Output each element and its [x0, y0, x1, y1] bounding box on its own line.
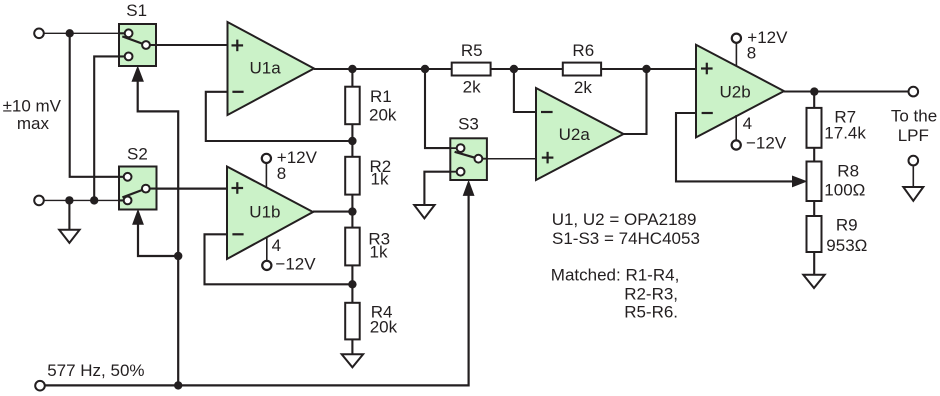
junction dot U1b out [348, 207, 356, 215]
wire S1 control [138, 80, 179, 385]
svg-text:1k: 1k [371, 170, 389, 189]
svg-text:U1a: U1a [250, 59, 282, 78]
resistor R2 [345, 157, 360, 195]
svg-text:20k: 20k [370, 317, 398, 336]
junction dot U2a minus branch [510, 65, 518, 73]
svg-text:max: max [17, 114, 50, 133]
wire S1 b branch [94, 56, 119, 200]
junction dot S1 b branch [90, 196, 98, 204]
resistor R4 [345, 303, 360, 340]
wire S3 common to U2a plus [487, 158, 536, 160]
wire U2b feedback [676, 113, 793, 181]
svg-text:R5-R6.: R5-R6. [624, 303, 678, 322]
svg-text:2k: 2k [574, 78, 592, 97]
svg-text:R9: R9 [836, 216, 858, 235]
svg-text:S1-S3 = 74HC4053: S1-S3 = 74HC4053 [552, 229, 700, 248]
terminal input2 [34, 196, 44, 206]
junction dot U1a feedback [348, 137, 356, 145]
wire U2a minus branch [514, 69, 536, 112]
op-amp U2a [536, 88, 624, 180]
wire S1 common to U1a plus [146, 44, 228, 46]
svg-text:100Ω: 100Ω [824, 180, 865, 199]
arrowhead S2 control [133, 210, 143, 224]
wire U1a output main bus [314, 68, 696, 70]
wire S2 control [138, 223, 178, 256]
arrowhead S1 control [132, 67, 143, 81]
resistor R8 [807, 162, 822, 202]
junction dot U2a out [642, 65, 650, 73]
svg-text:8: 8 [277, 164, 286, 183]
svg-text:U1, U2 = OPA2189: U1, U2 = OPA2189 [552, 210, 697, 229]
op-amp U1a [228, 22, 315, 115]
svg-text:4: 4 [272, 236, 281, 255]
resistor R7 [807, 108, 822, 148]
ground under S3 [414, 205, 434, 218]
wire input1 vertical bus to S2 a [70, 33, 119, 177]
wire S3 a branch from main bus [425, 69, 450, 148]
resistor R1 [345, 87, 360, 125]
ground under R4 [342, 354, 363, 367]
ground under input2 [59, 230, 79, 243]
svg-text:S1: S1 [126, 1, 147, 20]
U1b -12V pin 4 [262, 236, 316, 273]
arrowhead feedback into R8 [793, 176, 807, 186]
svg-text:R2-R3,: R2-R3, [624, 284, 678, 303]
svg-text:953Ω: 953Ω [826, 236, 867, 255]
switch S2 [119, 167, 157, 210]
wire input1 stub [44, 32, 119, 34]
resistor R9 [807, 216, 822, 252]
junction dot S3 branch [421, 65, 429, 73]
switch S1 [119, 24, 156, 66]
resistor R6 [563, 63, 601, 76]
resistor R5 [452, 63, 491, 76]
wire U1a feedback [206, 92, 353, 141]
wire S2 common to U1b plus [146, 188, 227, 190]
wire clock bottom bus [44, 195, 469, 386]
junction dot input1 [66, 29, 74, 37]
wire LPF ground stem [912, 166, 914, 187]
switch S3 [450, 138, 487, 180]
junction dot U2b out [810, 87, 818, 95]
op-amp U2b [696, 45, 784, 138]
svg-text:577 Hz, 50%: 577 Hz, 50% [47, 361, 144, 380]
terminal input1 [34, 29, 44, 39]
svg-text:U2b: U2b [720, 82, 751, 101]
U1b +12V pin 8 [262, 148, 318, 187]
svg-text:2k: 2k [463, 78, 481, 97]
svg-text:To the: To the [891, 107, 937, 126]
junction dot clock bus [174, 381, 182, 389]
svg-text:R6: R6 [572, 41, 594, 60]
ground under R9 [803, 275, 824, 288]
junction dot input2 ground [65, 196, 73, 204]
U2b +12V pin 8 [732, 28, 788, 67]
wire U2b output [784, 90, 908, 92]
svg-text:Matched: R1-R4,: Matched: R1-R4, [551, 265, 680, 284]
svg-text:8: 8 [747, 44, 756, 63]
svg-text:−12V: −12V [275, 254, 316, 273]
svg-text:U2a: U2a [559, 125, 591, 144]
svg-text:17.4k: 17.4k [824, 123, 866, 142]
svg-text:R8: R8 [837, 162, 859, 181]
svg-text:S3: S3 [458, 114, 479, 133]
ground under LPF terminal [903, 187, 923, 201]
arrowhead S3 control [463, 181, 473, 195]
svg-text:R1: R1 [370, 87, 392, 106]
wire ground under input2 stem [68, 200, 70, 229]
svg-text:LPF: LPF [898, 126, 929, 145]
junction dot R1 top [348, 65, 356, 73]
terminal output [909, 87, 919, 97]
svg-text:R5: R5 [461, 41, 483, 60]
junction dot S2 control [174, 252, 182, 260]
svg-text:U1b: U1b [249, 203, 280, 222]
U2b -12V pin 4 [732, 114, 787, 153]
wire R7-R9 chain vertical [813, 92, 815, 275]
svg-text:±10 mV: ±10 mV [3, 97, 62, 116]
svg-text:S2: S2 [127, 144, 148, 163]
svg-text:20k: 20k [369, 105, 397, 124]
wire input2 stub to S2 b [44, 199, 119, 201]
terminal LPF ground [909, 156, 919, 166]
svg-text:1k: 1k [370, 242, 388, 261]
svg-text:4: 4 [743, 114, 752, 133]
terminal clock [35, 381, 45, 391]
wire U2a output riser [624, 69, 647, 134]
svg-text:−12V: −12V [746, 134, 787, 153]
wire S3 b to ground [424, 172, 450, 205]
wire R1-R4 chain vertical [351, 69, 353, 354]
resistor R3 [345, 228, 360, 266]
junction dot U1b feedback [348, 280, 356, 288]
wire U1b feedback [205, 234, 353, 284]
op-amp U1b [227, 167, 313, 260]
wire U1b output [313, 211, 352, 213]
